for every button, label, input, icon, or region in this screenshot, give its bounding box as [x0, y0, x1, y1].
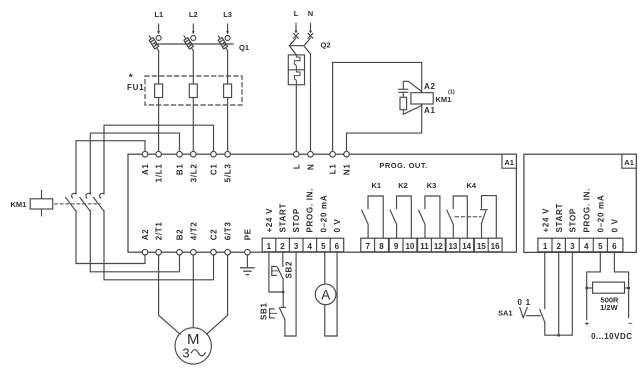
svg-text:PROG. IN.: PROG. IN. [582, 188, 591, 233]
terminal 5/L3 [224, 151, 233, 182]
contactor KM1 coil (left) [11, 191, 53, 216]
svg-text:0...10VDC: 0...10VDC [591, 332, 632, 341]
relay contact K4 NC [481, 196, 497, 239]
KM1 contact pole 1 [66, 193, 76, 210]
fuse FU1-1 [155, 84, 163, 98]
svg-text:13: 13 [448, 242, 457, 251]
svg-text:A1: A1 [624, 158, 634, 167]
wire terminal 1 down [269, 252, 283, 292]
svg-text:PROG. OUT.: PROG. OUT. [379, 161, 427, 170]
selector switch SA1 [498, 298, 545, 323]
svg-text:SA1: SA1 [498, 309, 513, 318]
ground PE [241, 255, 255, 275]
terminal 3/L2 [189, 151, 198, 182]
svg-text:N1: N1 [343, 164, 352, 176]
svg-text:5: 5 [598, 242, 603, 251]
node N [308, 9, 313, 34]
svg-text:4/T2: 4/T2 [189, 221, 198, 240]
wire fuse3 to 5/L3 [227, 98, 229, 152]
terminal B1 [176, 151, 185, 175]
terminal 6/T3 [224, 221, 233, 255]
breaker Q1 pole 2 [184, 36, 196, 51]
svg-text:FU1: FU1 [127, 83, 144, 92]
svg-text:Q1: Q1 [239, 43, 249, 52]
resistor 500R 1/2W [587, 282, 629, 312]
svg-text:A1: A1 [424, 106, 436, 115]
bypass wire top 2 (B1) [90, 133, 179, 193]
svg-text:0–20 mA: 0–20 mA [319, 195, 328, 233]
svg-text:L3: L3 [223, 10, 232, 19]
wire right terminal 2 down [558, 252, 560, 335]
relay contact K2 [390, 196, 411, 238]
svg-text:16: 16 [491, 242, 500, 251]
wire 6/T3 to motor [207, 255, 228, 334]
svg-text:11: 11 [420, 242, 429, 251]
svg-text:5: 5 [321, 242, 326, 251]
svg-text:6/T3: 6/T3 [224, 221, 233, 240]
terminal L1 [329, 151, 338, 174]
motor M1 [175, 328, 211, 364]
corner tag A1 (main box) [502, 154, 516, 168]
wire terminal 5 to ammeter [324, 252, 326, 284]
junction dot resistor right [627, 287, 630, 290]
terminal strip 7-16 [361, 238, 502, 252]
terminal A1 [141, 151, 150, 175]
fuse FU1-3 [224, 84, 232, 98]
svg-text:5/L3: 5/L3 [224, 164, 233, 183]
svg-text:3: 3 [570, 242, 575, 251]
svg-text:STOP: STOP [569, 208, 578, 232]
terminal B2 [176, 229, 185, 255]
svg-text:N: N [307, 164, 316, 170]
terminal C2 [210, 229, 219, 255]
svg-text:A1: A1 [504, 158, 514, 167]
contactor coil KM1 [411, 82, 455, 115]
KM1 contact pole 2 [80, 193, 90, 210]
terminal 2/T1 [155, 221, 164, 255]
svg-text:3: 3 [182, 346, 189, 361]
relay contact K4 NO [447, 196, 467, 238]
breaker Q1 pole 3 [218, 36, 230, 51]
svg-text:N: N [308, 9, 313, 18]
node L [294, 9, 299, 34]
svg-text:L: L [292, 164, 301, 170]
RC snubber of KM1 [399, 81, 422, 114]
pushbutton SB1 (stop) [260, 292, 286, 336]
Q1 linkage [155, 43, 233, 45]
bypass wire top 3 (C1) [104, 125, 214, 193]
bypass wire bottom 1 (A2) [76, 211, 145, 264]
node L1 [154, 10, 163, 34]
svg-text:PROG. IN.: PROG. IN. [306, 188, 315, 233]
svg-text:8: 8 [379, 242, 384, 251]
wire 2/T1 to motor [159, 255, 180, 334]
svg-text:12: 12 [434, 242, 443, 251]
relay contact K3 [419, 196, 440, 238]
wire L3 to fuse [227, 51, 229, 84]
svg-text:A1: A1 [141, 164, 150, 176]
breaker Q2 pole N [304, 33, 313, 151]
terminal PE [243, 228, 252, 255]
svg-text:C2: C2 [210, 229, 219, 241]
Q2 release box [288, 55, 304, 85]
node L2 [189, 10, 198, 34]
svg-text:(1): (1) [448, 90, 455, 96]
wire L1 terminal to KM1 coil loop [333, 62, 422, 151]
breaker Q1 pole 1 [149, 36, 161, 51]
wire SB1 to terminal 3 [285, 252, 296, 336]
junction dot resistor left [585, 287, 588, 290]
breaker Q2 pole L [289, 33, 298, 55]
svg-text:C1: C1 [210, 164, 219, 176]
svg-text:4: 4 [584, 242, 589, 251]
wire L1 to fuse [158, 51, 160, 84]
terminal C1 [210, 151, 219, 175]
svg-text:+: + [585, 319, 590, 328]
svg-text:L1: L1 [154, 10, 163, 19]
svg-text:START: START [555, 203, 564, 233]
terminal A2 [141, 229, 150, 255]
wire ammeter to terminal 6 [325, 252, 337, 336]
svg-text:PE: PE [243, 228, 252, 240]
svg-text:14: 14 [462, 242, 471, 251]
fuse FU1-2 [189, 84, 197, 98]
svg-text:Q2: Q2 [321, 41, 331, 50]
svg-text:1/2W: 1/2W [600, 303, 618, 312]
svg-text:L2: L2 [189, 10, 198, 19]
svg-text:4: 4 [307, 242, 312, 251]
wire to + terminal [586, 288, 588, 320]
svg-text:15: 15 [477, 242, 486, 251]
terminal N [307, 151, 316, 170]
wire KM1 coil to N1 [347, 104, 422, 152]
junction dot SB [282, 291, 285, 294]
relay contact K1 [362, 196, 384, 238]
wire to - terminal [628, 288, 630, 318]
junction dot SA1 [557, 334, 560, 337]
soft starter main box [128, 154, 516, 252]
svg-text:KM1: KM1 [11, 200, 27, 209]
wire Q2 to terminal L [295, 85, 297, 152]
terminal 1/L1 [155, 151, 164, 182]
svg-text:K2: K2 [398, 181, 408, 190]
wire fuse2 to 3/L2 [192, 98, 194, 152]
svg-text:0 V: 0 V [333, 218, 342, 232]
svg-text:L: L [294, 9, 299, 18]
pushbutton SB2 (start) [272, 252, 294, 292]
wire L2 to fuse [192, 51, 194, 84]
right device box [524, 154, 636, 252]
svg-text:+24 V: +24 V [265, 208, 274, 233]
svg-text:–: – [628, 319, 632, 328]
KM1 contact pole 3 [94, 193, 104, 210]
svg-text:A: A [321, 287, 330, 302]
svg-text:2: 2 [280, 242, 285, 251]
terminal L [292, 151, 301, 169]
svg-text:START: START [279, 203, 288, 233]
svg-text:K4: K4 [467, 181, 477, 190]
svg-text:6: 6 [612, 242, 617, 251]
svg-text:SB2: SB2 [285, 261, 294, 279]
wire fuse1 to 1/L1 [158, 98, 160, 152]
svg-text:10: 10 [405, 242, 414, 251]
svg-text:2: 2 [556, 242, 561, 251]
wire right terminal 1 down [544, 252, 546, 309]
svg-text:L1: L1 [329, 164, 338, 175]
svg-text:B1: B1 [176, 164, 185, 176]
bypass wire bottom 2 (B2) [90, 211, 179, 272]
label FU1 [127, 73, 144, 93]
svg-text:9: 9 [394, 242, 399, 251]
svg-text:1: 1 [543, 242, 548, 251]
KM1 linkage (dashed) [55, 203, 101, 205]
svg-text:A2: A2 [424, 82, 436, 91]
svg-text:6: 6 [335, 242, 340, 251]
svg-text:1/L1: 1/L1 [155, 164, 164, 183]
svg-text:7: 7 [365, 242, 370, 251]
svg-text:B2: B2 [176, 229, 185, 241]
node L3 [223, 10, 232, 34]
wire SA1 to terminals 2,3 [545, 252, 573, 335]
svg-text:A2: A2 [141, 229, 150, 241]
svg-text:0 V: 0 V [611, 218, 620, 232]
Q2 linkage [289, 45, 304, 47]
svg-text:KM1: KM1 [436, 95, 452, 104]
svg-text:K3: K3 [427, 181, 437, 190]
wire 4/T2 to motor [192, 255, 194, 328]
svg-text:*: * [129, 73, 133, 84]
terminal N1 [343, 151, 352, 175]
terminal strip 1-6 (right box) [538, 238, 623, 252]
wire right terminal 6 to resistor [614, 252, 628, 288]
svg-text:0–20 mA: 0–20 mA [596, 195, 605, 233]
svg-text:K1: K1 [372, 181, 382, 190]
bypass wire top 1 (A1) [76, 141, 145, 194]
terminal strip 1-6 (main box) [262, 238, 344, 252]
svg-text:2/T1: 2/T1 [155, 221, 164, 240]
svg-text:+24 V: +24 V [541, 208, 550, 233]
K4 mechanical link (dashed) [455, 216, 481, 218]
bypass wire bottom 3 (C2) [104, 211, 214, 280]
svg-text:STOP: STOP [292, 208, 301, 232]
svg-text:SB1: SB1 [260, 302, 269, 320]
terminal 4/T2 [189, 221, 198, 255]
svg-text:3: 3 [294, 242, 299, 251]
svg-text:1: 1 [267, 242, 272, 251]
fuse enclosure FU1 (dashed) [145, 76, 242, 105]
corner tag A1 (right box) [622, 154, 636, 168]
svg-text:3/L2: 3/L2 [189, 164, 198, 183]
wire right terminal 5 to resistor [587, 252, 601, 288]
svg-text:0 1: 0 1 [518, 298, 531, 307]
ammeter A [315, 284, 336, 305]
